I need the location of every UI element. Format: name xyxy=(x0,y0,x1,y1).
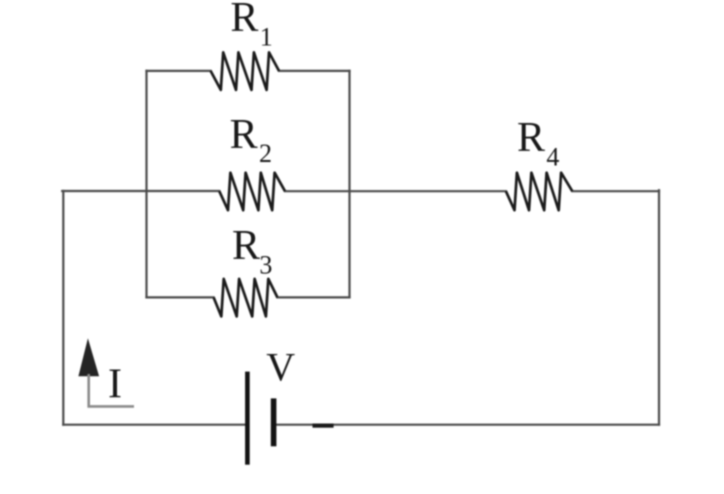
battery V short plate (negative) xyxy=(271,398,277,446)
resistor R1 zigzag xyxy=(211,52,279,90)
wire: parallel box right vertical xyxy=(348,71,350,298)
wire: bottom right segment xyxy=(276,424,659,426)
wire: main horizontal middle segment xyxy=(285,190,506,192)
svg-text:R: R xyxy=(232,223,260,269)
resistor R3 zigzag xyxy=(214,279,278,317)
wire: parallel box left vertical xyxy=(145,71,147,298)
wire: R1 branch left lead xyxy=(147,70,211,72)
wire: R3 branch right lead xyxy=(277,296,349,298)
resistor R4 zigzag xyxy=(506,173,572,211)
svg-text:2: 2 xyxy=(259,139,272,168)
svg-text:R: R xyxy=(517,115,545,161)
wire: R3 branch left lead xyxy=(147,296,214,298)
svg-text:V: V xyxy=(266,345,295,390)
svg-text:R: R xyxy=(230,0,258,41)
wire: main horizontal right segment xyxy=(572,190,659,192)
resistor R2 zigzag xyxy=(219,173,285,211)
wire: bottom left segment xyxy=(63,424,245,426)
wire: right vertical xyxy=(658,190,660,425)
minus polarity dash on wire xyxy=(313,424,334,428)
svg-text:1: 1 xyxy=(260,23,273,52)
svg-text:3: 3 xyxy=(259,251,272,280)
svg-text:I: I xyxy=(108,362,122,408)
battery V long plate (positive) xyxy=(245,372,250,465)
current arrow shaft and L guide xyxy=(89,374,134,406)
wire: main horizontal left segment xyxy=(62,190,219,192)
wire: R1 branch right lead xyxy=(279,70,350,72)
wire: left vertical xyxy=(62,191,64,425)
current arrow head xyxy=(78,338,99,376)
svg-text:R: R xyxy=(230,112,258,158)
svg-text:4: 4 xyxy=(546,142,559,171)
